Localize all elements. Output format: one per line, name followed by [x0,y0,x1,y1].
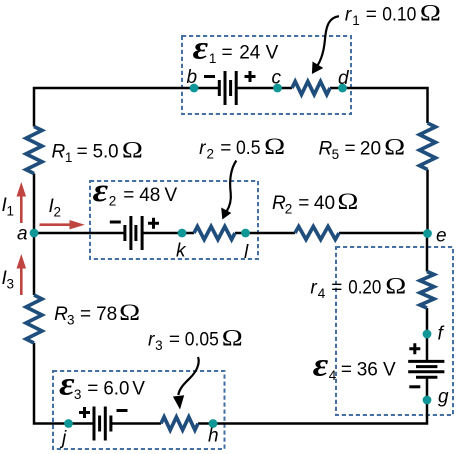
svg-text:=: = [366,5,377,26]
svg-text:1: 1 [65,150,73,165]
svg-text:2: 2 [207,147,215,162]
node b [190,84,199,93]
node k [178,229,187,238]
svg-text:k: k [176,241,187,262]
resistor r2 (0.5 ohm) zigzag [194,227,235,240]
wire from R2 to node e [339,232,428,235]
svg-text:g: g [438,387,449,408]
svg-text:=: = [345,139,356,160]
dashed box around r4 and EMF4 [336,247,453,415]
svg-text:=: = [169,330,180,351]
battery E4 plates (long,short,long,short top to bottom) [408,360,444,363]
svg-text:=: = [331,277,342,298]
node l [241,229,250,238]
wire from battery E3 past node j to bottom-left corner and up to R3 [34,343,94,424]
battery E2 plates (short,tall,short,tall) [123,225,126,241]
wire from r2 past node l to R2 [235,232,295,235]
svg-text:5: 5 [332,147,340,162]
svg-text:2: 2 [54,205,62,220]
svg-text:b: b [187,67,198,88]
plus sign of E3 [79,407,90,418]
svg-text:Ω: Ω [264,134,285,159]
current arrow I1 [17,182,27,223]
node j [64,419,73,428]
svg-text:=: = [87,379,98,400]
svg-text:40: 40 [314,193,335,214]
svg-text:Ω: Ω [384,135,405,160]
svg-text:Ω: Ω [119,300,140,325]
svg-text:ε: ε [59,367,75,403]
svg-text:1: 1 [352,13,360,28]
svg-text:Ω: Ω [222,326,243,351]
svg-text:ε: ε [193,31,209,67]
wire between r3 and battery E3 [111,422,161,425]
svg-text:=: = [80,304,91,325]
dashed box around EMF1 and r1 [182,36,351,114]
svg-text:=: = [222,43,233,64]
svg-text:r: r [345,5,352,26]
node a [30,229,39,238]
current arrow I2 [40,220,85,229]
svg-text:=: = [77,142,88,163]
svg-text:4: 4 [318,286,326,301]
minus sign of E3 [117,409,128,412]
svg-text:4: 4 [329,368,337,383]
svg-text:r: r [148,330,155,351]
svg-text:1: 1 [209,51,217,66]
svg-text:=: = [123,185,134,206]
svg-text:Ω: Ω [122,138,143,163]
resistor R5 (20 ohm) zigzag [420,123,436,170]
minus sign of E4 [409,385,420,388]
wire from R5 down past node e to r4 [426,170,429,272]
svg-text:R: R [319,139,333,160]
svg-text:ε: ε [313,348,329,384]
svg-text:5.0: 5.0 [93,142,119,163]
plus sign of E2 [148,218,159,229]
svg-text:0.10: 0.10 [382,5,416,26]
minus sign of E2 [110,221,121,224]
plus sign of E1 [245,71,256,82]
wire from battery E2 past node k to r2 [142,232,194,235]
svg-text:V: V [383,360,396,381]
node h [209,419,218,428]
svg-text:24: 24 [239,43,261,64]
wire from node a up to R1 [33,174,36,234]
node c [273,84,282,93]
battery E3 plates (tall,short,tall,short) [93,407,96,441]
svg-text:0.20: 0.20 [348,277,381,298]
battery E1 plates (short,tall,short,tall) [218,80,221,96]
pointer arrow from r1 label to resistor r1 [318,16,340,65]
minus sign of E1 [204,75,215,78]
svg-text:48: 48 [139,185,160,206]
svg-text:V: V [165,185,178,206]
svg-text:a: a [17,224,28,245]
svg-text:c: c [272,68,282,89]
svg-text:Ω: Ω [385,273,406,298]
wire from R3 up to node a [33,233,36,295]
svg-text:e: e [436,226,447,247]
resistor r3 (0.05 ohm) zigzag [161,417,198,430]
pointer arrow from r3 label to resistor r3 [178,357,198,395]
svg-text:1: 1 [7,204,15,219]
wire from r4 past node f to battery E4 [426,308,429,361]
wire from node a right to battery E2 [34,232,125,235]
svg-text:20: 20 [360,139,381,160]
svg-text:78: 78 [96,304,117,325]
svg-text:R: R [52,142,66,163]
svg-text:r: r [310,277,317,298]
resistor R3 (78 ohm) zigzag [26,295,42,343]
svg-text:V: V [266,43,279,64]
plus sign of E4 [409,343,420,354]
svg-text:d: d [338,68,350,89]
svg-text:3: 3 [67,313,75,328]
svg-text:3: 3 [7,277,15,292]
resistor r4 (0.20 ohm) zigzag [420,272,434,309]
node f [423,330,432,339]
svg-text:3: 3 [155,338,163,353]
current arrow I3 [17,254,27,295]
wire top-left: from R1 top up the corner and right to battery E1 [34,88,219,127]
svg-text:R: R [54,304,68,325]
wire from r1 over top-right corner down to R5 [330,88,428,123]
resistor r1 (0.10 ohm) zigzag [292,82,330,95]
svg-text:r: r [199,138,206,159]
svg-text:0.5: 0.5 [236,138,261,159]
pointer arrow from r2 label to resistor r2 [227,161,237,212]
svg-text:Ω: Ω [337,189,358,214]
node e [423,229,432,238]
svg-text:36: 36 [357,360,378,381]
wire between battery E1 and resistor r1 [236,87,292,90]
svg-text:2: 2 [285,202,293,217]
svg-text:6.0: 6.0 [103,379,129,400]
svg-text:=: = [220,138,231,159]
dashed box around EMF3 and r3 [53,371,225,449]
resistor R1 (5.0 ohm) zigzag [26,127,42,174]
svg-text:0.05: 0.05 [185,330,219,351]
svg-text:V: V [132,379,145,400]
dashed box around EMF2 and r2 [90,181,258,259]
node d [338,84,347,93]
node g [423,396,432,405]
svg-text:Ω: Ω [420,1,441,26]
svg-text:h: h [208,426,219,447]
svg-text:=: = [341,360,352,381]
svg-text:2: 2 [109,194,117,209]
svg-text:=: = [298,193,309,214]
svg-text:3: 3 [74,387,82,402]
svg-text:ε: ε [93,173,109,209]
wire from battery E4 past node g to bottom-right corner and left to r3 [198,377,427,423]
resistor R2 (40 ohm) zigzag [295,227,339,240]
